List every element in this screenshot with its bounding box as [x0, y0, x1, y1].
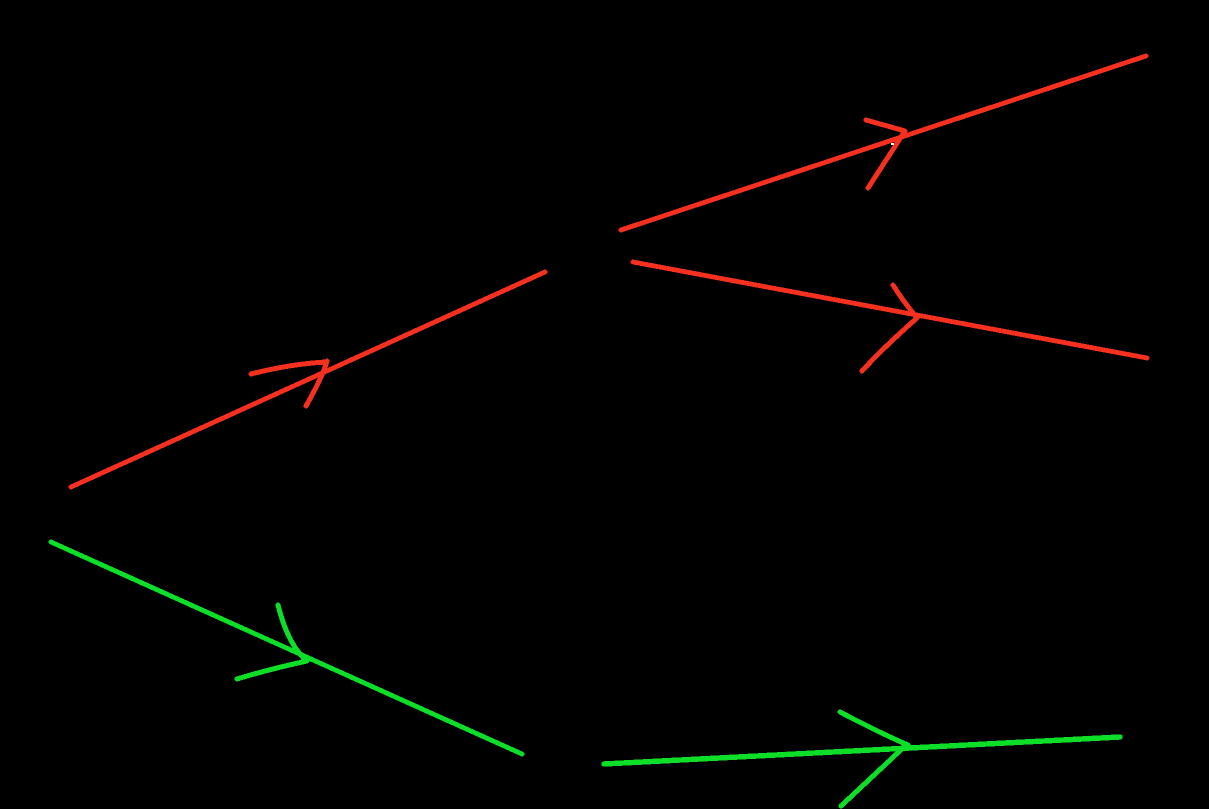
- red ray 2 (center to upper-right): [621, 56, 1146, 230]
- green arrow 1 lower barb: [237, 661, 307, 679]
- green arrow 2 upper barb: [840, 712, 908, 745]
- green ray 1 (left to lower-center): [51, 542, 522, 754]
- red arrow 1 lower barb: [306, 361, 327, 406]
- white speck near red arrow 2: [891, 143, 894, 145]
- red arrow 2 lower barb: [868, 131, 905, 188]
- red ray 3 (center to right, descending): [633, 262, 1147, 358]
- red arrow 3 lower barb: [862, 318, 917, 371]
- red arrow 1 upper barb: [251, 362, 326, 374]
- green arrow 2 lower barb: [841, 747, 904, 806]
- red ray 1 (incident, lower-left to center): [71, 272, 545, 487]
- green arrow 1 upper barb: [278, 605, 307, 661]
- red arrow 2 upper barb: [866, 120, 905, 131]
- red arrow 3 upper barb: [893, 285, 917, 318]
- green ray 2 (lower-center to right): [604, 737, 1120, 764]
